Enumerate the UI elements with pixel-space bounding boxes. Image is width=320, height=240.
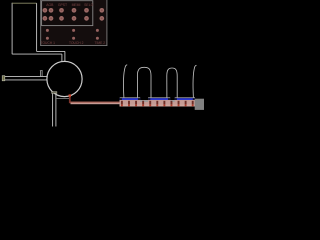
link line to feed stub bbox=[57, 98, 70, 100]
port stub on inlet bbox=[40, 71, 43, 77]
bar B1 blue stripe bbox=[120, 98, 141, 100]
knob row 2 bbox=[43, 16, 89, 21]
pipe: horizontal run upper wall bbox=[37, 50, 65, 52]
pump body (circle) bbox=[47, 61, 82, 96]
feed stub (red) bbox=[69, 96, 71, 103]
trim pots column 3 bbox=[96, 29, 99, 40]
feed stub hot dot bbox=[69, 94, 71, 96]
knob centers row 1 bbox=[44, 9, 87, 11]
anchor block bbox=[195, 99, 204, 110]
wire: loop right riser bbox=[36, 3, 38, 51]
rail base (pink) bbox=[120, 100, 205, 107]
rail top stripe gap 2 bbox=[170, 100, 175, 102]
svg-text:SELO: SELO bbox=[84, 3, 93, 7]
trim pots column 2 bbox=[72, 29, 75, 40]
bar B1 top plate bbox=[120, 96, 141, 99]
bar B3 end caps bbox=[175, 98, 177, 100]
ties (dark bodies) bbox=[121, 101, 194, 105]
feed pipe top edge bbox=[71, 102, 120, 103]
rail top stripe gap 1 bbox=[140, 100, 148, 102]
pipe: outlet left wall bbox=[52, 93, 54, 127]
svg-text:MEMI: MEMI bbox=[72, 3, 81, 7]
svg-text:TOUCH 1: TOUCH 1 bbox=[41, 41, 56, 45]
pipe: outlet right wall bbox=[55, 93, 57, 127]
tie tips (bright red) bbox=[121, 105, 194, 107]
trim pots column 1 bbox=[46, 29, 49, 40]
pipe: inlet upper wall bbox=[3, 76, 47, 78]
sub-panel (jack field) bbox=[42, 1, 93, 26]
svg-text:GPST: GPST bbox=[58, 3, 67, 7]
outlet flange bbox=[52, 92, 57, 94]
svg-text:TIME 2: TIME 2 bbox=[95, 41, 106, 45]
string S4 (half loop) bbox=[193, 65, 196, 97]
inlet end cap bbox=[2, 76, 5, 81]
svg-text:TOUCH 2: TOUCH 2 bbox=[69, 41, 84, 45]
pipe: horizontal run lower wall bbox=[12, 53, 62, 55]
bar B1 end caps bbox=[120, 98, 122, 100]
svg-text:AGB: AGB bbox=[46, 3, 54, 7]
feed pipe (pink) bbox=[71, 102, 120, 105]
string loop S2 bbox=[137, 67, 151, 97]
pipe: drop to pump right wall bbox=[64, 51, 66, 62]
bar B2 top plate bbox=[148, 96, 170, 99]
right jack column bbox=[99, 8, 104, 21]
knob row 1 bbox=[43, 8, 89, 13]
pipe: inlet lower wall bbox=[3, 79, 47, 81]
wire: loop left riser bbox=[11, 3, 13, 54]
string loop S3 bbox=[167, 68, 177, 98]
pipe: drop to pump left wall bbox=[61, 54, 63, 63]
bar B2 blue stripe bbox=[148, 98, 170, 100]
knob centers row 2 bbox=[44, 18, 87, 20]
control panel U1 body bbox=[40, 0, 107, 46]
wire: loop top run bbox=[12, 2, 37, 4]
bar B3 blue stripe bbox=[175, 98, 195, 100]
right jack centers bbox=[101, 9, 103, 19]
string S1 (half loop) bbox=[124, 65, 128, 98]
bar B2 end caps bbox=[148, 98, 150, 100]
bar B3 top plate bbox=[175, 96, 195, 99]
